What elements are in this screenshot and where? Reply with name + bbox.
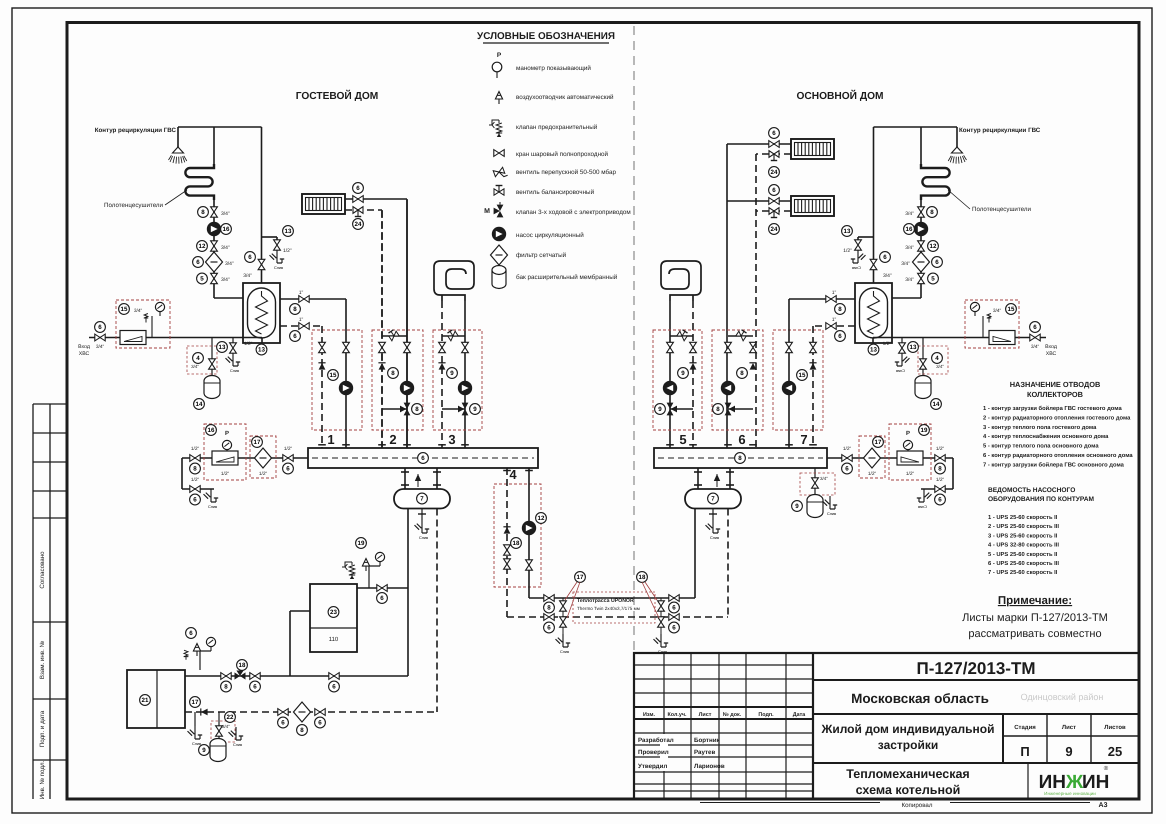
- ball valve 6 return left: [278, 709, 288, 716]
- make-up return stub (guest): [181, 458, 183, 489]
- svg-text:110: 110: [329, 636, 339, 643]
- ball valve 8 3/4in (guest): [211, 207, 218, 217]
- wire heat trace risers (main): [694, 509, 696, 599]
- svg-text:6: 6: [672, 605, 676, 612]
- pump group box 1 (guest): [312, 330, 362, 430]
- svg-text:4: 4: [509, 467, 517, 482]
- svg-text:ГОСТЕВОЙ ДОМ: ГОСТЕВОЙ ДОМ: [296, 89, 379, 102]
- pump box2 (guest): [400, 381, 414, 395]
- svg-text:9: 9: [450, 370, 454, 377]
- bypass with balancing valve box3 (guest): [442, 335, 465, 337]
- svg-text:6: 6: [938, 497, 942, 504]
- svg-text:Согласовано: Согласовано: [39, 551, 46, 589]
- svg-text:Лист: Лист: [699, 712, 712, 718]
- radiator balancing valve 24 (guest): [353, 207, 363, 217]
- heat trace return pipe dashed: [507, 616, 728, 618]
- svg-text:15: 15: [121, 306, 128, 313]
- make-up line to collector (main): [827, 457, 953, 459]
- svg-text:Жилой дом индивидуальной: Жилой дом индивидуальной: [820, 722, 994, 736]
- svg-text:Теплотрасса UPONOR: Теплотрасса UPONOR: [577, 598, 634, 604]
- legend balancing valve symbol: [494, 186, 504, 196]
- make-up branch to membrane tank (main): [922, 338, 924, 379]
- svg-text:Вход: Вход: [78, 344, 90, 350]
- svg-text:8: 8: [201, 209, 205, 216]
- legend overflow valve symbol: [493, 167, 507, 180]
- svg-text:9: 9: [1065, 744, 1072, 759]
- svg-text:8: 8: [300, 727, 304, 734]
- pump box6 (main): [721, 381, 735, 395]
- svg-text:12: 12: [538, 515, 545, 522]
- valves box1 (guest): [319, 342, 326, 352]
- cold water main ХВС (main): [873, 337, 1046, 339]
- heating membrane tank 9 (main): [807, 495, 823, 518]
- svg-text:1/2": 1/2": [906, 471, 915, 477]
- svg-text:Листов: Листов: [1104, 724, 1126, 731]
- towel radiator serpentine (main): [920, 127, 922, 164]
- svg-text:3/4": 3/4": [225, 261, 234, 267]
- svg-text:7: 7: [711, 496, 715, 503]
- svg-text:5 - UPS 25-60 скорость II: 5 - UPS 25-60 скорость II: [988, 551, 1058, 558]
- svg-text:18: 18: [239, 662, 246, 669]
- svg-text:воздухоотводчик автоматический: воздухоотводчик автоматический: [516, 94, 614, 101]
- svg-text:5: 5: [931, 276, 935, 283]
- svg-text:19: 19: [358, 540, 365, 547]
- valve 8 1/2in (guest): [190, 455, 200, 462]
- fill group box 16 (main): [889, 424, 931, 480]
- svg-text:фильтр сетчатый: фильтр сетчатый: [516, 252, 567, 259]
- svg-text:19: 19: [921, 427, 928, 434]
- svg-text:Контур рециркуляции ГВС: Контур рециркуляции ГВС: [95, 127, 177, 134]
- svg-text:Полотенцесушители: Полотенцесушители: [972, 206, 1031, 213]
- make-up branch to membrane tank (guest): [211, 338, 213, 379]
- svg-text:1": 1": [299, 317, 304, 323]
- svg-text:6: 6: [380, 595, 384, 602]
- svg-text:5: 5: [679, 432, 686, 447]
- legend filter symbol: [491, 245, 508, 265]
- legend ball valve symbol: [494, 150, 504, 157]
- svg-text:6: 6: [772, 130, 776, 137]
- svg-text:14: 14: [933, 401, 940, 408]
- svg-text:8: 8: [938, 466, 942, 473]
- ball valve 5 3/4in (main): [918, 273, 925, 283]
- svg-text:ОСНОВНОЙ ДОМ: ОСНОВНОЙ ДОМ: [796, 89, 883, 102]
- svg-text:Копировал: Копировал: [901, 802, 932, 809]
- wall-hung boiler 23 (110): [310, 584, 357, 652]
- svg-text:8: 8: [193, 466, 197, 473]
- ball valve 6 1in (guest): [299, 323, 309, 330]
- svg-text:Лист: Лист: [1062, 724, 1076, 731]
- svg-text:®: ®: [1104, 765, 1109, 772]
- svg-text:15: 15: [1008, 306, 1015, 313]
- check valve box5 (main): [689, 363, 696, 370]
- svg-text:Раутев: Раутев: [694, 749, 715, 756]
- svg-text:4: 4: [935, 355, 939, 362]
- pump box5 (main): [663, 381, 677, 395]
- shower head (main): [948, 146, 966, 164]
- expansion tank branch under boiler: [218, 712, 220, 741]
- svg-text:8: 8: [391, 370, 395, 377]
- wire tank return port (dashed) (guest): [280, 325, 322, 327]
- svg-text:УСЛОВНЫЕ ОБОЗНАЧЕНИЯ: УСЛОВНЫЕ ОБОЗНАЧЕНИЯ: [477, 31, 615, 42]
- strainer 8 return: [294, 702, 311, 722]
- svg-text:3/4": 3/4": [191, 364, 199, 369]
- svg-text:6 - контур радиаторного отопле: 6 - контур радиаторного отопления основн…: [983, 452, 1133, 459]
- wire box1 dashed (guest): [321, 326, 323, 448]
- svg-text:1: 1: [327, 432, 334, 447]
- radiator (guest): [302, 194, 345, 214]
- check valve box2 (guest): [378, 363, 385, 370]
- separator drain (main): [712, 509, 714, 521]
- svg-text:1/2": 1/2": [191, 477, 200, 483]
- svg-text:6: 6: [253, 684, 257, 691]
- svg-text:П: П: [1020, 744, 1029, 759]
- ball valve 8 1in (main): [826, 296, 836, 303]
- wall boiler supply pipe: [357, 587, 408, 589]
- valves box3 (guest): [439, 342, 446, 352]
- svg-text:18: 18: [513, 540, 520, 547]
- svg-text:4 - контур теплоснабжения осно: 4 - контур теплоснабжения основного дома: [983, 433, 1109, 440]
- svg-text:3/4": 3/4": [1031, 344, 1040, 350]
- 3-way valve box3 (guest): [442, 408, 465, 410]
- strainer 6 3/4in (main): [913, 252, 930, 272]
- svg-text:насос циркуляционный: насос циркуляционный: [516, 232, 584, 239]
- bypass with balancing valve box2 (guest): [382, 335, 407, 337]
- svg-text:13: 13: [870, 347, 877, 354]
- svg-text:13: 13: [844, 228, 851, 235]
- radiator 1 valves (main): [727, 143, 791, 145]
- solid fuel boiler 21: [127, 670, 185, 728]
- svg-text:1/2": 1/2": [284, 446, 293, 452]
- title block names: [660, 734, 668, 771]
- title block frame: [634, 653, 1139, 799]
- svg-text:8: 8: [293, 306, 297, 313]
- svg-text:7 - UPS 25-60 скорость II: 7 - UPS 25-60 скорость II: [988, 569, 1058, 576]
- box4 riser ticks: [503, 470, 511, 472]
- pump group box 7 (main): [773, 330, 823, 430]
- svg-text:Московская область: Московская область: [851, 691, 989, 706]
- wire tank supply port (main): [789, 298, 855, 300]
- separator drain (guest): [421, 509, 423, 521]
- svg-text:ИН: ИН: [1039, 772, 1066, 793]
- wire box7 dashed (main): [812, 326, 814, 448]
- svg-text:1/2": 1/2": [221, 471, 230, 477]
- label 17 heat trace: [575, 572, 586, 583]
- svg-text:23: 23: [330, 609, 337, 616]
- expansion tank 9: [210, 739, 226, 762]
- svg-text:ВЕДОМОСТЬ НАСОСНОГО: ВЕДОМОСТЬ НАСОСНОГО: [988, 487, 1075, 494]
- svg-text:3/4": 3/4": [820, 476, 828, 481]
- drain near tank (main): [823, 496, 838, 516]
- svg-text:2 - UPS 25-60 скорость III: 2 - UPS 25-60 скорость III: [988, 523, 1059, 530]
- ball valve 6 3/4in riser (guest): [258, 259, 265, 269]
- svg-text:9: 9: [473, 406, 477, 413]
- pump box7 (main): [782, 381, 796, 395]
- svg-text:НАЗНАЧЕНИЕ ОТВОДОВ: НАЗНАЧЕНИЕ ОТВОДОВ: [1010, 380, 1101, 389]
- svg-text:8: 8: [740, 370, 744, 377]
- svg-text:3/4": 3/4": [936, 364, 944, 369]
- svg-text:6: 6: [196, 259, 200, 266]
- svg-text:застройки: застройки: [878, 738, 938, 752]
- valves box6 (main): [750, 342, 757, 352]
- svg-text:6: 6: [356, 185, 360, 192]
- valves box7 (main): [810, 342, 817, 352]
- svg-text:17: 17: [192, 699, 199, 706]
- svg-text:6: 6: [672, 625, 676, 632]
- svg-text:5: 5: [200, 276, 204, 283]
- svg-text:Кол.уч.: Кол.уч.: [668, 712, 687, 718]
- svg-text:П-127/2013-ТМ: П-127/2013-ТМ: [917, 659, 1036, 678]
- svg-text:1 - UPS 25-60 скорость II: 1 - UPS 25-60 скорость II: [988, 514, 1058, 521]
- wire DHW riser (guest): [261, 127, 263, 283]
- svg-text:7: 7: [800, 432, 807, 447]
- svg-text:13: 13: [910, 344, 917, 351]
- svg-text:Взам. инв. №: Взам. инв. №: [39, 640, 46, 679]
- ball valve 6 3/4in riser (main): [870, 259, 877, 269]
- ball valve 12 3/4in (guest): [211, 241, 218, 251]
- svg-text:25: 25: [1108, 744, 1122, 759]
- svg-text:3/4": 3/4": [883, 273, 892, 279]
- svg-text:3 - UPS 25-60 скорость II: 3 - UPS 25-60 скорость II: [988, 532, 1058, 539]
- svg-text:кран шаровый полнопроходной: кран шаровый полнопроходной: [516, 151, 609, 158]
- svg-text:3: 3: [448, 432, 455, 447]
- check valve box3 (guest): [438, 363, 445, 370]
- pump box1 (guest): [339, 381, 353, 395]
- svg-text:4 - UPS 32-80 скорость III: 4 - UPS 32-80 скорость III: [988, 542, 1059, 549]
- wire wall boiler return: [290, 610, 310, 612]
- drain branch near riser (guest): [262, 236, 278, 238]
- svg-text:Разработал: Разработал: [638, 737, 674, 744]
- bypass with balancing valve box6 (main): [728, 335, 753, 337]
- svg-text:13: 13: [258, 347, 265, 354]
- label 18 heat trace: [637, 572, 648, 583]
- drain stub heat trace left: [562, 598, 564, 634]
- check valve box6 (main): [749, 363, 756, 370]
- svg-text:3/4": 3/4": [222, 724, 230, 729]
- drain near tank: [219, 711, 236, 713]
- svg-text:3/4": 3/4": [243, 273, 252, 279]
- svg-text:13: 13: [285, 228, 292, 235]
- collector junction ticks (guest): [318, 444, 326, 446]
- svg-text:Подп.: Подп.: [758, 712, 774, 718]
- collector bar (main): [654, 448, 827, 468]
- wire separator return down dashed (guest): [436, 509, 438, 713]
- radiator 1 (main): [791, 139, 834, 159]
- svg-text:3 - контур теплого пола гостев: 3 - контур теплого пола гостевого дома: [983, 424, 1097, 431]
- svg-text:6: 6: [883, 254, 887, 261]
- svg-text:6: 6: [772, 187, 776, 194]
- 3-way valve box5 (main): [670, 408, 693, 410]
- svg-text:6: 6: [845, 466, 849, 473]
- svg-text:P: P: [497, 52, 502, 59]
- svg-text:1 - контур загрузки бойлера ГВ: 1 - контур загрузки бойлера ГВС гостевог…: [983, 405, 1122, 412]
- svg-text:17: 17: [875, 439, 882, 446]
- svg-text:16: 16: [906, 226, 913, 233]
- legend tank symbol: [492, 266, 506, 289]
- check valve on return: [201, 708, 208, 715]
- svg-text:24: 24: [771, 169, 778, 176]
- title block grid: [812, 653, 814, 799]
- ball valve 6 boiler supply: [377, 585, 387, 592]
- svg-text:Бортник: Бортник: [694, 737, 720, 744]
- wire radiator supply (guest): [345, 198, 407, 200]
- svg-text:клапан 3-х ходовой с электропр: клапан 3-х ходовой с электроприводом: [516, 209, 631, 216]
- wire radiator risers (main): [726, 144, 728, 448]
- 3-way mixing valve 18: [235, 671, 246, 680]
- check valve transit: [503, 527, 510, 534]
- svg-text:6: 6: [293, 333, 297, 340]
- svg-text:1/2": 1/2": [244, 341, 253, 347]
- valve 6 1/2in (main): [842, 455, 852, 462]
- svg-text:9: 9: [795, 503, 799, 510]
- svg-text:2: 2: [389, 432, 396, 447]
- svg-text:9: 9: [658, 406, 662, 413]
- wire box1 solid (guest): [345, 299, 347, 448]
- floor heating spiral (guest): [434, 261, 474, 301]
- valve 8 1/2in (main): [935, 455, 945, 462]
- svg-text:Одинцовский район: Одинцовский район: [1021, 692, 1104, 702]
- ball valve 6 return right: [315, 709, 325, 716]
- svg-text:1/2": 1/2": [936, 446, 945, 452]
- label 8 box2 (guest): [388, 368, 399, 379]
- svg-text:Листы марки П-127/2013-ТМ: Листы марки П-127/2013-ТМ: [962, 612, 1108, 624]
- svg-text:P: P: [906, 430, 910, 437]
- pump group box 3 (guest): [433, 330, 482, 430]
- svg-text:Вход: Вход: [1045, 344, 1057, 350]
- wire transit return dashed: [506, 468, 508, 617]
- circulation pump 16 (main): [914, 222, 928, 236]
- svg-text:Инженерные инновации: Инженерные инновации: [1044, 791, 1096, 796]
- drain branch ХВС (main): [901, 338, 903, 345]
- bypass with balancing valve box5 (main): [670, 335, 693, 337]
- wire radiator risers (guest): [406, 199, 408, 448]
- pump group box 4 (transit): [494, 484, 541, 587]
- wire tank return port (dashed) (main): [813, 325, 855, 327]
- make-up return stub (main): [952, 458, 954, 489]
- svg-text:1": 1": [299, 290, 304, 296]
- valves transit return: [504, 545, 511, 555]
- valves box2 (guest): [379, 342, 386, 352]
- svg-text:12: 12: [930, 243, 937, 250]
- wire tank supply port (guest): [280, 298, 346, 300]
- wire floor heating risers (main): [692, 301, 694, 448]
- svg-text:24: 24: [771, 226, 778, 233]
- svg-text:Утвердил: Утвердил: [638, 763, 667, 770]
- svg-text:ОБОРУДОВАНИЯ ПО КОНТУРАМ: ОБОРУДОВАНИЯ ПО КОНТУРАМ: [988, 496, 1094, 503]
- drain branch ХВС (guest): [232, 338, 234, 345]
- label 8 box6 (main): [737, 368, 748, 379]
- wire transit supply: [528, 468, 530, 598]
- legend pump symbol: [492, 227, 506, 241]
- pump group box 6 (main): [712, 330, 763, 430]
- sheet centre divider (dashed): [633, 26, 635, 650]
- wire separator supply down (guest): [407, 509, 409, 677]
- svg-text:Примечание:: Примечание:: [998, 595, 1072, 607]
- collector bar (guest): [308, 448, 538, 468]
- svg-text:1": 1": [832, 317, 837, 323]
- svg-text:16: 16: [223, 226, 230, 233]
- ball valve 8 1in (guest): [299, 296, 309, 303]
- svg-text:6: 6: [935, 259, 939, 266]
- wire DHW riser (main): [873, 127, 875, 283]
- collector junction ticks (main): [809, 444, 817, 446]
- ball valve 5 3/4in (guest): [211, 273, 218, 283]
- label 9 box5 (main): [678, 368, 689, 379]
- svg-text:1/2": 1/2": [283, 248, 292, 254]
- strainer box 17 (main): [859, 436, 885, 478]
- shower head (guest): [169, 146, 187, 164]
- 3-way valve box2 (guest): [382, 408, 407, 410]
- svg-text:7: 7: [420, 496, 424, 503]
- svg-text:6: 6: [1033, 324, 1037, 331]
- svg-text:3/4": 3/4": [134, 308, 143, 314]
- svg-text:P: P: [225, 430, 229, 437]
- svg-text:ИН: ИН: [1082, 772, 1109, 793]
- wire DHW recirculation top (main): [874, 126, 958, 128]
- svg-text:бак расширительный мембранный: бак расширительный мембранный: [516, 274, 618, 281]
- document number П-127/2013-ТМ: [813, 679, 1139, 681]
- ball valve transit supply: [526, 560, 533, 570]
- svg-text:24: 24: [355, 221, 362, 228]
- pressure reducer group 15 (guest): [116, 300, 170, 348]
- wire box2 verticals (guest): [406, 200, 408, 448]
- svg-text:А3: А3: [1099, 802, 1108, 809]
- svg-text:17: 17: [577, 574, 584, 581]
- transit pump 12: [522, 521, 536, 535]
- svg-text:6: 6: [318, 720, 322, 727]
- svg-text:1/2": 1/2": [259, 471, 268, 477]
- svg-text:Дата: Дата: [793, 712, 806, 718]
- pump group box 2 (guest): [372, 330, 423, 430]
- svg-text:КОЛЛЕКТОРОВ: КОЛЛЕКТОРОВ: [1027, 390, 1083, 399]
- svg-text:ХВС: ХВС: [1046, 351, 1057, 357]
- project name Московская область: [813, 713, 1139, 715]
- heating expansion tank group (main): [814, 468, 816, 498]
- ball valve 6 after 3-way: [250, 673, 260, 680]
- svg-text:1": 1": [832, 290, 837, 296]
- pump group box 5 (main): [653, 330, 702, 430]
- svg-text:8: 8: [415, 406, 419, 413]
- wire radiator return dashed (guest): [345, 209, 382, 211]
- svg-text:3/4": 3/4": [905, 245, 914, 251]
- svg-text:8: 8: [838, 306, 842, 313]
- radiator 2 (main): [791, 196, 834, 216]
- wire towel chain (main): [920, 206, 922, 298]
- svg-text:4: 4: [196, 355, 200, 362]
- legend safety valve symbol: [489, 120, 502, 137]
- svg-text:3/4": 3/4": [905, 211, 914, 217]
- svg-text:Контур рециркуляции ГВС: Контур рециркуляции ГВС: [959, 127, 1041, 134]
- svg-text:1/2": 1/2": [843, 446, 852, 452]
- svg-text:вентиль перепускной 50-500 мба: вентиль перепускной 50-500 мбар: [516, 169, 616, 176]
- ball valve 6 ХВС inlet (guest): [95, 334, 105, 341]
- drain stub heat trace right: [660, 598, 662, 634]
- DHW boiler tank 13 (guest): [243, 283, 280, 343]
- svg-text:3/4": 3/4": [905, 277, 914, 283]
- svg-text:6 - UPS 25-60 скорость III: 6 - UPS 25-60 скорость III: [988, 560, 1059, 567]
- svg-text:6: 6: [281, 720, 285, 727]
- membrane tank 14 (main): [915, 376, 931, 399]
- membrane tank 14 (guest): [204, 376, 220, 399]
- svg-text:6: 6: [547, 625, 551, 632]
- ball valve 6 ХВС inlet (main): [1030, 334, 1040, 341]
- check valve box7 (main): [809, 363, 816, 370]
- svg-text:вентиль балансировочный: вентиль балансировочный: [516, 189, 595, 196]
- fill group box 16 (guest): [204, 424, 246, 480]
- radiator valve 6 (guest): [353, 196, 363, 203]
- svg-text:3/4": 3/4": [221, 245, 230, 251]
- svg-text:Ларионов: Ларионов: [694, 763, 725, 770]
- svg-text:Изм.: Изм.: [643, 712, 655, 718]
